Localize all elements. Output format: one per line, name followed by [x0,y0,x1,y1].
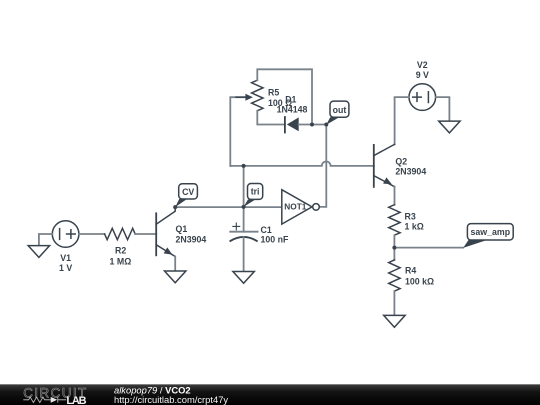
ground G4 [439,121,460,133]
svg-text:2N3904: 2N3904 [176,234,207,244]
svg-text:V2: V2 [417,60,428,70]
wire V2 minus to ground [436,97,450,121]
svg-text:1 MΩ: 1 MΩ [110,256,132,266]
label C1 value [261,225,289,245]
ground G2 [165,271,186,283]
wire out vertical to NOT1 output [320,125,327,207]
svg-text:out: out [333,105,347,115]
svg-text:R4: R4 [405,266,416,276]
rheostat R5 wiper arrow [236,96,246,98]
wire V1 plus to R2 [79,233,105,235]
node CV flag [175,184,197,207]
diode D1 [285,117,299,133]
ground G1 [28,246,49,258]
wire R4 to ground [393,291,395,315]
label V2 value [416,60,429,80]
node tri junction dot [242,205,246,209]
footer bar [0,384,540,405]
node tri flag [244,184,263,207]
wire to saw_amp flag [394,247,463,249]
svg-text:D1: D1 [285,94,296,104]
label R5 value [268,88,292,109]
svg-text:C1: C1 [261,225,272,235]
resistor R5 [252,80,263,111]
svg-text:1 kΩ: 1 kΩ [405,222,424,232]
node junction dot R5 loop [310,123,314,127]
wire R3 to R4 [393,235,395,260]
label R3 value [405,211,424,231]
label R2 value [110,245,132,266]
label Q1 value [176,224,207,244]
svg-text:Q2: Q2 [395,156,407,166]
wire R2 to Q1 base [135,233,156,235]
svg-text:V1: V1 [60,253,71,263]
transistor Q2 [374,144,395,187]
capacitor C1 [230,223,257,241]
node out junction dot [324,123,328,127]
footer logo wave and diode [23,397,66,403]
wire Q2 emitter to R3 [394,187,396,205]
svg-text:CV: CV [182,187,194,197]
label R4 value [405,266,434,287]
wire CV to NOT1 input [175,206,282,208]
node CV junction dot [173,205,177,209]
label Q2 value [395,156,426,176]
svg-text:LAB: LAB [66,395,86,405]
resistor R3 [389,205,400,236]
svg-text:1 V: 1 V [59,263,72,273]
wire R5 bottom to D1 cathode [257,111,285,125]
label V1 value [59,253,72,273]
svg-text:2N3904: 2N3904 [395,166,426,176]
voltage source V2 [409,84,436,111]
wire Q1 emitter to ground [174,257,176,272]
svg-text:9 V: 9 V [416,70,429,80]
node junction dot upper rail [242,164,246,168]
svg-text:R2: R2 [115,245,126,255]
wire D1 anode to out node [299,124,327,126]
transistor Q1 [156,207,175,256]
wire V1 minus to ground [39,234,52,246]
svg-text:1N4148: 1N4148 [277,104,308,114]
ground G3 [233,272,254,284]
svg-text:saw_amp: saw_amp [470,227,510,237]
ground G5 [384,315,405,327]
resistor R4 [389,260,400,291]
wire upper rail with hop [230,162,373,166]
node out flag [326,101,349,125]
wire V2 plus to Q2 collector [395,97,409,144]
resistor R2 [105,228,136,239]
inverter NOT1 [282,190,320,224]
svg-text:http://circuitlab.com/crpt47y: http://circuitlab.com/crpt47y [114,394,228,405]
label D1 value [277,94,308,114]
node saw junction dot [392,246,396,250]
svg-text:Q1: Q1 [176,224,188,234]
node saw_amp flag [463,224,513,248]
svg-text:100 nF: 100 nF [261,235,289,245]
voltage source V1 [52,221,79,248]
wire R5 top loop [257,69,312,124]
wire left riser to R5 wiper [230,97,246,166]
svg-text:100 kΩ: 100 kΩ [405,276,434,286]
wire tri vertical from upper rail to C1 [243,166,245,232]
svg-text:R3: R3 [405,211,416,221]
svg-text:tri: tri [251,187,260,197]
svg-text:R5: R5 [268,88,279,98]
svg-text:NOT1: NOT1 [284,202,307,212]
wire C1 to ground [243,237,245,272]
